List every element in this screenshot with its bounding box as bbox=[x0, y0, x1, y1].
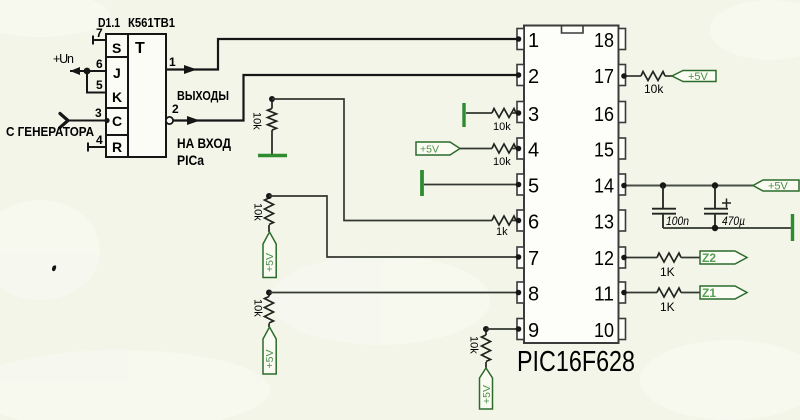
pin 13 box bbox=[619, 210, 626, 231]
pin4 connection dot bbox=[516, 146, 522, 152]
pin 3 stub C wire bbox=[67, 120, 106, 122]
wire gnd to R3 bbox=[466, 112, 492, 114]
svg-text:T: T bbox=[135, 40, 145, 57]
node at C pin bbox=[104, 118, 109, 123]
pin 9 box bbox=[517, 319, 524, 340]
svg-text:9: 9 bbox=[528, 320, 539, 342]
svg-text:7: 7 bbox=[528, 248, 539, 270]
resistor R4 10k at pin4 bbox=[492, 144, 516, 153]
svg-text:13: 13 bbox=[594, 212, 614, 234]
node R7 top bbox=[483, 326, 489, 332]
svg-text:1K: 1K bbox=[660, 300, 675, 314]
pin 10 box bbox=[619, 319, 626, 340]
svg-text:+5V: +5V bbox=[688, 71, 709, 83]
pin12 connection dot bbox=[621, 255, 627, 261]
svg-text:С ГЕНЕРАТОРА: С ГЕНЕРАТОРА bbox=[6, 124, 95, 139]
wire R6 node to IC pin8 bbox=[269, 292, 517, 294]
pin 7 box bbox=[517, 247, 524, 268]
resistor R3 10k at pin3 bbox=[492, 109, 516, 118]
wire R4 to pin4 bbox=[512, 148, 517, 150]
svg-text:12: 12 bbox=[594, 248, 614, 270]
svg-text:10k: 10k bbox=[644, 82, 664, 96]
output 2 arrowhead bbox=[187, 116, 200, 125]
svg-text:+5V: +5V bbox=[768, 181, 789, 193]
wire R9 to Z2 flag bbox=[681, 257, 700, 259]
svg-text:10k: 10k bbox=[493, 156, 511, 168]
svg-text:6: 6 bbox=[96, 57, 103, 71]
resistor R1 10k at pin2 node bbox=[268, 99, 277, 154]
ground bar right bbox=[791, 214, 794, 241]
wire pin17 to R8 bbox=[626, 75, 642, 77]
svg-text:K: K bbox=[112, 89, 122, 105]
resistor R8 10k at pin17 bbox=[641, 72, 665, 81]
svg-text:10k: 10k bbox=[493, 121, 511, 133]
wire R8 to +5V flag bbox=[665, 75, 672, 77]
+Un arrow bbox=[70, 67, 80, 75]
+5V flag at pin4 bbox=[416, 142, 460, 156]
pin 15 box bbox=[619, 138, 626, 159]
svg-text:5: 5 bbox=[528, 176, 539, 198]
pin 4 stub R bbox=[88, 143, 106, 152]
svg-text:4: 4 bbox=[528, 140, 539, 162]
svg-text:8: 8 bbox=[528, 284, 539, 306]
wire pin14 to +5V flag bbox=[626, 185, 754, 187]
pin 14 box bbox=[619, 174, 626, 195]
svg-text:10k: 10k bbox=[252, 299, 264, 317]
wire FF output2 to IC pin2 bbox=[173, 75, 517, 121]
svg-text:+Un: +Un bbox=[53, 52, 74, 66]
pin 7 stub S bbox=[93, 36, 106, 45]
svg-text:2: 2 bbox=[528, 66, 539, 88]
node R1 top bbox=[269, 96, 275, 102]
pin 11 box bbox=[619, 282, 626, 303]
resistor R5 10k pullup to pin7 bbox=[265, 198, 274, 232]
svg-text:7: 7 bbox=[96, 26, 103, 40]
IC left pin numbers bbox=[528, 30, 539, 342]
pin3 connection dot bbox=[516, 110, 522, 116]
svg-text:1K: 1K bbox=[660, 265, 675, 279]
svg-text:PIC16F628: PIC16F628 bbox=[517, 346, 635, 378]
pin 1 box bbox=[517, 29, 524, 50]
svg-text:2: 2 bbox=[172, 102, 179, 116]
pin 12 box bbox=[619, 247, 626, 268]
svg-text:100n: 100n bbox=[666, 214, 689, 228]
svg-text:16: 16 bbox=[594, 104, 614, 126]
svg-text:PICa: PICa bbox=[177, 152, 204, 168]
svg-text:10k: 10k bbox=[251, 112, 263, 130]
generator input chevron arrow bbox=[60, 114, 68, 128]
ground bar at pin3 bbox=[462, 103, 465, 127]
svg-text:J: J bbox=[113, 65, 121, 81]
resistor R10 1K at pin11 bbox=[657, 288, 681, 297]
pin17 connection dot bbox=[621, 73, 627, 79]
ground wire under capacitors bbox=[663, 227, 791, 229]
svg-text:6: 6 bbox=[528, 212, 539, 234]
resistor R2 1k at pin6 bbox=[492, 216, 516, 225]
svg-text:R: R bbox=[112, 139, 122, 155]
pin5 connection dot bbox=[516, 182, 522, 188]
node C2 top bbox=[712, 182, 718, 188]
svg-text:5: 5 bbox=[96, 78, 103, 92]
wire pin11 to R10 bbox=[626, 292, 658, 294]
capacitor C2 470u bbox=[704, 186, 728, 229]
flip-flop D1.1 body bbox=[106, 34, 166, 157]
svg-text:C: C bbox=[112, 113, 122, 129]
pin2 connection dot bbox=[516, 72, 522, 78]
svg-text:+5V: +5V bbox=[264, 350, 276, 369]
Z1 output flag bbox=[700, 286, 747, 300]
pin 5 box bbox=[517, 174, 524, 195]
svg-text:+5V: +5V bbox=[420, 144, 439, 156]
node C2 bottom bbox=[712, 225, 718, 231]
wire R7 node to IC pin9 bbox=[486, 328, 517, 330]
+5V flag at pin17 bbox=[672, 71, 716, 84]
capacitor C1 100n bbox=[652, 186, 676, 229]
svg-text:10k: 10k bbox=[252, 203, 264, 221]
ground bar under R1 bbox=[258, 154, 287, 157]
pin 3 box bbox=[517, 102, 524, 123]
wire pin12 to R9 bbox=[626, 257, 658, 259]
pin 17 box bbox=[619, 65, 626, 86]
svg-text:ВЫХОДЫ: ВЫХОДЫ bbox=[177, 88, 229, 103]
resistor R7 10k pullup to pin9 bbox=[482, 329, 491, 368]
Z2 output flag bbox=[700, 251, 747, 265]
+5V flag below R5 bbox=[263, 232, 276, 278]
pin 18 box bbox=[619, 29, 626, 50]
output 2 inversion bubble bbox=[166, 117, 173, 124]
node C1 top bbox=[660, 182, 666, 188]
pin 8 box bbox=[517, 282, 524, 303]
svg-text:1: 1 bbox=[528, 30, 539, 52]
pin1 connection dot bbox=[516, 36, 522, 42]
C2 plus sign bbox=[722, 199, 731, 208]
svg-text:11: 11 bbox=[594, 284, 614, 306]
svg-text:НА ВХОД: НА ВХОД bbox=[177, 135, 231, 151]
output 1 arrowhead bbox=[184, 65, 197, 74]
wire R5 node to IC pin7 bbox=[269, 196, 517, 257]
IC orientation notch bbox=[562, 26, 584, 34]
wire gnd to pin5 bbox=[424, 184, 517, 186]
svg-text:10: 10 bbox=[594, 320, 614, 342]
wire flag to R4 bbox=[460, 148, 492, 150]
+5V flag below R7 bbox=[480, 368, 494, 409]
svg-text:К561ТВ1: К561ТВ1 bbox=[128, 15, 175, 30]
+5V flag below R6 bbox=[263, 327, 276, 374]
node at J pin bbox=[84, 68, 91, 75]
IC PIC16F628 body bbox=[524, 26, 619, 344]
IC left pin boxes bbox=[517, 29, 524, 340]
pin 16 box bbox=[619, 102, 626, 123]
IC right pin numbers bbox=[594, 30, 614, 342]
svg-text:18: 18 bbox=[594, 30, 614, 52]
svg-text:S: S bbox=[112, 40, 121, 56]
svg-text:1k: 1k bbox=[496, 226, 508, 238]
svg-text:+5V: +5V bbox=[481, 385, 493, 404]
pin7 connection dot bbox=[516, 254, 522, 260]
wire FF output1 to IC pin1 bbox=[166, 39, 517, 70]
svg-text:15: 15 bbox=[594, 140, 614, 162]
resistor R6 10k pullup to pin8 bbox=[265, 293, 274, 328]
pin6 connection dot bbox=[516, 218, 522, 224]
+5V flag at pin14 bbox=[753, 180, 799, 193]
ground bar at pin5 bbox=[420, 170, 424, 196]
svg-text:+5V: +5V bbox=[264, 253, 276, 272]
pin 6 stub J wire bbox=[70, 70, 106, 72]
pin11 connection dot bbox=[621, 290, 627, 296]
svg-text:1: 1 bbox=[169, 55, 176, 69]
IC right pin boxes bbox=[619, 29, 626, 340]
pin9 connection dot bbox=[516, 326, 522, 332]
pin 6 box bbox=[517, 210, 524, 231]
wire R1 node to IC pin6 bbox=[272, 99, 517, 221]
pin 4 box bbox=[517, 138, 524, 159]
svg-text:Z2: Z2 bbox=[702, 251, 716, 265]
svg-text:Z1: Z1 bbox=[702, 286, 716, 300]
wire R3 to pin3 bbox=[512, 112, 517, 114]
pin8 connection dot bbox=[516, 290, 522, 296]
svg-text:3: 3 bbox=[95, 106, 102, 120]
wire R10 to Z1 flag bbox=[681, 292, 700, 294]
svg-text:14: 14 bbox=[594, 176, 614, 198]
pin14 connection dot bbox=[621, 183, 627, 189]
node R5 top bbox=[266, 193, 272, 199]
svg-text:17: 17 bbox=[594, 66, 614, 88]
pin 2 box bbox=[517, 65, 524, 86]
wire J node to K pin bbox=[87, 71, 106, 93]
svg-text:4: 4 bbox=[96, 133, 103, 147]
svg-text:470µ: 470µ bbox=[722, 214, 745, 228]
node R6 top bbox=[266, 290, 272, 296]
svg-text:3: 3 bbox=[528, 104, 539, 126]
resistor R9 1K at pin12 bbox=[657, 253, 681, 262]
svg-text:10k: 10k bbox=[468, 336, 480, 354]
